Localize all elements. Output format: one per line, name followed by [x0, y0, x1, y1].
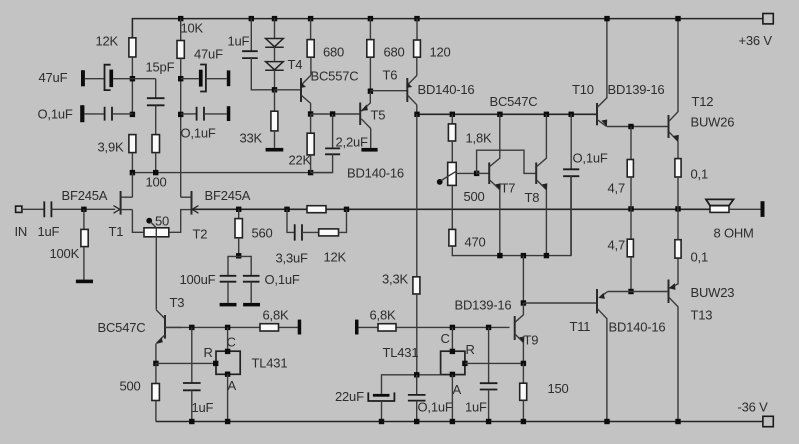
svg-text:470: 470: [465, 235, 486, 250]
wire trimmer wiper out: [456, 172, 476, 174]
svg-text:100uF: 100uF: [180, 272, 216, 287]
junction T11 emitter row: [628, 289, 633, 294]
wire 1uF2 vertical: [488, 327, 490, 383]
svg-text:BD139-16: BD139-16: [455, 298, 512, 313]
wire mid rail y172: [132, 172, 332, 174]
resistor 12K feedback: [319, 229, 339, 236]
capacitor 47uF C3: [199, 65, 206, 92]
junction T3 emitter node: [153, 361, 158, 366]
transistor T2 BF245A: [181, 191, 199, 215]
capacitor 22uF: [368, 392, 394, 401]
resistor 3,3K: [413, 277, 420, 294]
junction rail 0,1: [675, 206, 680, 211]
junction rail 0,1uF4: [414, 419, 419, 424]
wire caps top left: [228, 256, 251, 275]
wire to C3: [181, 78, 199, 80]
wire 100 to mid rail: [155, 153, 157, 173]
wire C2 to x132: [112, 113, 132, 115]
svg-text:4,7: 4,7: [608, 181, 625, 196]
svg-text:O,1uF: O,1uF: [573, 151, 608, 166]
svg-text:3,3uF: 3,3uF: [276, 251, 309, 266]
junction 47uF row x132: [130, 76, 135, 81]
wire 3,3uF to 12K: [302, 231, 319, 233]
wire 680-2 down: [369, 57, 371, 91]
junction rail 12K right: [344, 207, 349, 212]
svg-text:8 OHM: 8 OHM: [714, 226, 754, 241]
wire rail to 680-1: [310, 19, 312, 40]
resistor 680 second: [367, 40, 374, 58]
transistor T7 BC547C: [489, 114, 501, 190]
junction rail 680-1: [308, 16, 313, 21]
wire TL431-2 A down: [451, 375, 453, 422]
terminal +36V: [763, 14, 773, 24]
junction caps node: [236, 253, 241, 258]
wire 3,3uF branch left: [287, 209, 295, 232]
wire 0,1uF to ground: [250, 282, 252, 303]
junction wiper T7 base: [474, 171, 479, 176]
svg-text:1uF: 1uF: [465, 400, 487, 415]
wire 0,1uF3 bottom: [570, 176, 572, 255]
resistor 6,8K right: [378, 324, 396, 331]
svg-text:T9: T9: [524, 333, 539, 348]
wire 22K top: [310, 114, 312, 133]
svg-text:6,8K: 6,8K: [370, 308, 396, 323]
svg-text:T5: T5: [371, 108, 386, 123]
wire T7 base to T8 base bridge: [477, 150, 537, 173]
wire IN to C5: [22, 208, 44, 210]
svg-text:O,1uF: O,1uF: [181, 126, 216, 141]
wire 1,8K to trimmer: [451, 141, 453, 162]
resistor 100K: [81, 229, 88, 246]
junction 1uF2 top: [486, 325, 491, 330]
terminal IN: [16, 206, 22, 212]
svg-text:O,1uF: O,1uF: [418, 400, 453, 415]
junction rail T13: [675, 419, 680, 424]
wire T9 collector up: [522, 256, 524, 303]
junction rail 22uF: [379, 419, 384, 424]
svg-text:R: R: [204, 345, 213, 360]
wire 33K to ground: [274, 131, 276, 148]
pin R U2: [462, 361, 467, 366]
junction rail 1uF-2: [486, 419, 491, 424]
resistor 500 left: [152, 384, 160, 401]
resistor 120: [414, 40, 421, 57]
resistor 33K: [271, 111, 278, 131]
capacitor 1uF top: [242, 51, 258, 58]
svg-text:T3: T3: [170, 295, 185, 310]
junction 4,7-1 top: [628, 124, 633, 129]
wire 100uF to ground: [227, 282, 229, 303]
svg-text:500: 500: [464, 189, 485, 204]
junction mid rail x132: [130, 170, 135, 175]
IC TL431 U2: [441, 351, 465, 374]
transistor T12 BUW26: [669, 19, 679, 142]
svg-text:BD140-16: BD140-16: [418, 82, 475, 97]
wire 1uF3 to base row: [251, 58, 274, 90]
ground under 0,1uF: [243, 303, 260, 307]
trimmer 50 wiper: [146, 218, 156, 237]
resistor 680 first: [307, 40, 314, 58]
wire node to 100K: [83, 209, 85, 229]
svg-text:6,8K: 6,8K: [263, 308, 289, 323]
wire 22uF to rail: [381, 401, 383, 422]
wire terminal to C2: [84, 113, 104, 115]
terminal 6,8K left row: [298, 320, 302, 335]
wire 2,2uF down: [332, 114, 334, 148]
resistor 12K R1: [129, 38, 136, 57]
svg-text:560: 560: [252, 226, 273, 241]
resistor 4,7 second: [627, 239, 633, 257]
junction 1uF top: [189, 325, 194, 330]
svg-text:22K: 22K: [289, 153, 312, 168]
svg-text:A: A: [228, 378, 237, 393]
capacitor 3,3uF: [295, 224, 302, 240]
junction TL431-2 C node: [450, 325, 455, 330]
svg-text:BC547C: BC547C: [490, 94, 538, 109]
svg-text:680: 680: [384, 45, 405, 60]
junction bias T7coll: [497, 112, 502, 117]
svg-text:BD140-16: BD140-16: [609, 320, 666, 335]
speaker LS1: [706, 199, 734, 212]
capacitor 2,2uF: [325, 148, 340, 154]
capacitor 0,1uF bottom: [408, 395, 426, 401]
junction rail 1uF3: [249, 16, 254, 21]
capacitor 0,1uF bias: [563, 169, 579, 176]
wire 100K to ground: [83, 247, 85, 280]
junction row255 T8: [544, 253, 549, 258]
svg-text:47uF: 47uF: [194, 47, 223, 62]
trimmer 500 wiper right: [437, 171, 457, 185]
junction rail TL431-1A: [225, 419, 230, 424]
wire A node to 22uF: [382, 375, 441, 394]
svg-text:1uF: 1uF: [38, 224, 60, 239]
svg-text:1,8K: 1,8K: [466, 131, 492, 146]
junction TL431 C node: [225, 325, 230, 330]
svg-text:-36 V: -36 V: [738, 400, 769, 415]
junction bias T8coll: [544, 112, 549, 117]
svg-text:0,1: 0,1: [691, 250, 708, 265]
svg-text:TL431: TL431: [252, 356, 288, 371]
resistor 100: [152, 135, 160, 153]
svg-text:10K: 10K: [181, 21, 204, 36]
wire T1 source to trimmer: [132, 210, 144, 233]
svg-text:500: 500: [120, 379, 141, 394]
svg-text:T1: T1: [109, 224, 124, 239]
svg-text:15pF: 15pF: [146, 60, 175, 75]
wire C4 to terminal: [204, 113, 227, 115]
transistor T9 BD139-16: [515, 303, 525, 343]
svg-text:3,3K: 3,3K: [382, 272, 408, 287]
svg-text:4,7: 4,7: [608, 238, 625, 253]
transistor T4 BC557C: [300, 75, 311, 103]
wire 0,1uF3 top: [570, 114, 572, 169]
junction A-node x417: [414, 372, 419, 377]
terminal 6,8K right row: [355, 320, 359, 335]
wire D2 to base row: [274, 70, 276, 90]
wire D1 to D2: [274, 47, 276, 61]
junction row255 T9: [521, 253, 526, 258]
pin R U1: [213, 361, 218, 366]
wire 4,7-1 bottom: [630, 177, 632, 209]
junction diode base row: [272, 87, 277, 92]
svg-text:1uF: 1uF: [228, 34, 250, 49]
svg-text:0,1: 0,1: [691, 167, 708, 182]
transistor T13 BUW23: [669, 240, 679, 422]
resistor 0,1 second: [675, 240, 681, 258]
wire 560 bottom: [238, 238, 240, 256]
wire rail to D1: [274, 19, 276, 39]
junction rail 3,3uF: [284, 207, 289, 212]
svg-text:O,1uF: O,1uF: [265, 272, 300, 287]
transistor T10 BD139-16: [597, 19, 607, 127]
svg-text:BUW26: BUW26: [691, 115, 735, 130]
terminal 47uF2 right: [227, 70, 231, 86]
svg-text:IN: IN: [15, 224, 28, 239]
wire rail to 10K: [180, 19, 182, 41]
diode D2: [265, 62, 284, 71]
transistor T3 BC547C: [156, 310, 182, 344]
svg-text:47uF: 47uF: [39, 70, 68, 85]
svg-text:100K: 100K: [50, 246, 80, 261]
wire 120 to T6 emitter: [416, 57, 418, 75]
wire TL431-2 C up: [451, 327, 453, 351]
wire 10K down to T2 drain: [180, 58, 182, 197]
capacitor 0,1uF parallel: [243, 276, 260, 282]
wire trimmer wiper down to T3: [155, 237, 157, 310]
capacitor 100uF: [220, 276, 237, 282]
junction rail T12 coll: [675, 16, 680, 21]
resistor 10K: [177, 41, 184, 59]
junction T5 emitter node: [368, 89, 373, 94]
svg-text:TL431: TL431: [383, 345, 419, 360]
svg-text:T8: T8: [525, 190, 540, 205]
svg-text:T4: T4: [288, 57, 303, 72]
wire node to 500: [155, 363, 157, 383]
wire node to 150: [522, 363, 524, 383]
wire 3,9K to mid rail: [131, 153, 133, 173]
wire C3 to terminal: [206, 78, 227, 80]
pin A U1: [225, 372, 230, 377]
capacitor 0,1uF C4: [197, 107, 204, 121]
ground under 100K: [76, 280, 93, 284]
wire TL431-1 A down: [227, 374, 229, 421]
wire 1uF to rail: [191, 390, 193, 421]
svg-text:T13: T13: [691, 308, 713, 323]
wire 680-1 to T4 emitter: [310, 57, 312, 75]
svg-text:C: C: [227, 335, 236, 350]
terminal 47uF left: [81, 70, 85, 86]
svg-text:T6: T6: [383, 68, 398, 83]
wire x417 down: [416, 114, 418, 276]
junction rail 120: [414, 16, 419, 21]
wire trimmer to T2 source: [169, 210, 192, 233]
junction row255 T7: [497, 253, 502, 258]
svg-text:R: R: [466, 342, 475, 357]
junction T9 emitter node: [521, 361, 526, 366]
pin C U1: [225, 349, 230, 354]
wire C1 to x132: [113, 78, 132, 80]
svg-text:BD140-16: BD140-16: [347, 166, 404, 181]
wire emitter node to TL431: [156, 362, 216, 364]
terminal speaker: [761, 201, 765, 217]
junction rail T11: [604, 419, 609, 424]
wire T12 emitter down: [677, 141, 679, 158]
resistor 470: [449, 229, 456, 246]
svg-text:BF245A: BF245A: [205, 188, 251, 203]
wire rail to 120: [416, 19, 418, 40]
svg-text:12K: 12K: [324, 250, 347, 265]
junction rail T10 coll: [604, 16, 609, 21]
resistor 560: [235, 219, 242, 238]
junction 0,1uF row x132: [130, 112, 135, 117]
wire T5 base row: [311, 113, 361, 115]
svg-text:3,9K: 3,9K: [98, 140, 124, 155]
capacitor 15pF: [147, 98, 165, 105]
svg-text:A: A: [453, 382, 462, 397]
wire 1uF vertical: [191, 327, 193, 383]
resistor 6,8K left: [260, 324, 279, 331]
wire 47uF node to 15pF: [132, 78, 155, 80]
wire T6 collector down: [416, 105, 418, 115]
wire 4,7-2 bottom: [630, 257, 632, 292]
junction rail 150: [521, 419, 526, 424]
svg-text:T2: T2: [193, 227, 208, 242]
transistor T11 BD140-16: [597, 289, 608, 422]
svg-text:BF245A: BF245A: [62, 188, 108, 203]
capacitor 1uF left: [183, 383, 201, 390]
svg-text:+36 V: +36 V: [739, 33, 773, 48]
resistor 3,9K: [129, 135, 136, 153]
wire T5 collector down: [370, 129, 372, 148]
wire 2,2uF to mid rail: [311, 154, 333, 172]
resistor 4,7 first: [627, 160, 633, 178]
pin C U2: [450, 349, 455, 354]
wire 4,7-2 top: [630, 209, 632, 239]
terminal 0,1uF left: [80, 105, 84, 122]
wire 0,1uF4 to rail: [416, 401, 418, 422]
junction bias 1,8K: [450, 112, 455, 117]
wire 3,3K down crossing: [416, 294, 418, 375]
diode D1: [265, 39, 284, 48]
trimmer 50 body: [144, 228, 169, 237]
wire C5 to gate: [51, 208, 115, 210]
wire +36V top rail: [132, 19, 762, 38]
resistor 150: [520, 383, 527, 400]
wire rail to 680-2: [369, 19, 371, 40]
resistor 0,1 first: [675, 159, 681, 177]
wire rail to 1uF3: [250, 19, 252, 52]
svg-text:12K: 12K: [96, 34, 119, 49]
svg-text:C: C: [441, 331, 450, 346]
wire T4 collector down: [310, 103, 312, 114]
junction T9 collector node: [521, 300, 526, 305]
junction rail 1uF-1: [189, 419, 194, 424]
wire T7 emitter down: [499, 190, 501, 256]
wire 4,7-1 top: [630, 127, 632, 160]
resistor 560 series on rail: [307, 206, 326, 213]
svg-text:120: 120: [430, 45, 451, 60]
pin A U2: [450, 372, 455, 377]
junction 47uF2 row x180: [178, 76, 183, 81]
capacitor 47uF C1: [105, 65, 114, 90]
capacitor 0,1uF C2: [105, 107, 112, 121]
resistor 1,8K: [448, 124, 455, 141]
wire right base row: [359, 326, 510, 328]
wire signal rail: [192, 208, 710, 210]
svg-text:T7: T7: [501, 181, 516, 196]
transistor T6 BD140-16: [406, 76, 416, 105]
junction bias 0,1uF: [569, 112, 574, 117]
svg-text:BUW23: BUW23: [691, 285, 735, 300]
svg-text:BD139-16: BD139-16: [608, 82, 665, 97]
junction mid rail x155: [153, 170, 158, 175]
transistor T5 BD140-16: [360, 92, 371, 129]
junction rail diodes: [272, 16, 277, 21]
IC TL431 U1: [216, 351, 240, 374]
wire 500 to bottom rail: [155, 401, 157, 422]
terminal 0,1uF2 right: [227, 106, 231, 121]
svg-text:50: 50: [155, 214, 169, 229]
wire 1uF2 to rail: [488, 390, 490, 422]
svg-text:2,2uF: 2,2uF: [336, 135, 369, 150]
wire T9 node to T11: [523, 302, 597, 304]
ground under T5: [361, 148, 377, 152]
svg-text:1uF: 1uF: [192, 400, 214, 415]
junction top rail 10K: [178, 16, 183, 21]
resistor 22K: [307, 133, 314, 155]
wire 1,8K top: [451, 114, 453, 124]
svg-text:T11: T11: [570, 319, 591, 334]
svg-text:T10: T10: [572, 82, 594, 97]
wire down to 15pF: [155, 79, 157, 99]
wire diodes node to 33K: [274, 90, 276, 111]
wire T11 emitter row: [608, 291, 669, 293]
svg-text:680: 680: [323, 45, 344, 60]
wire current row: [452, 176, 571, 255]
wire base row to T4: [275, 89, 302, 91]
wire 560 top: [238, 209, 240, 218]
wire 0,1-2 top: [677, 209, 679, 240]
wire 12K to node A: [131, 57, 133, 112]
wire A-node to 0,1uF bottom cap: [416, 375, 418, 395]
terminal -36V: [763, 416, 773, 426]
transistor T1 BF245A: [114, 191, 133, 215]
wire T8 emitter down: [545, 190, 547, 256]
junction rail 680-2: [368, 16, 373, 21]
svg-text:BC557C: BC557C: [311, 69, 359, 84]
wire 12K to rail: [339, 209, 347, 232]
junction T5 base row left: [308, 111, 313, 116]
wire T9 emitter down: [522, 342, 524, 363]
ground under 33K: [266, 148, 284, 152]
ground under 100uF: [220, 303, 237, 307]
wire terminal to C1: [85, 78, 105, 80]
wire T3 base row: [166, 326, 298, 328]
svg-text:100: 100: [146, 175, 167, 190]
svg-text:BC547C: BC547C: [98, 320, 146, 335]
svg-text:O,1uF: O,1uF: [38, 107, 73, 122]
svg-text:T12: T12: [692, 94, 714, 109]
wire 15pF to 100: [155, 105, 157, 134]
wire speaker to terminal: [729, 208, 761, 210]
wire -36V bottom rail: [156, 421, 763, 423]
junction mid rail x310: [308, 170, 313, 175]
wire T3 emitter down: [155, 344, 157, 364]
junction 0,1uF2 row x180: [178, 112, 183, 117]
wire 150 to rail: [522, 400, 524, 421]
wire T6 base: [370, 90, 407, 92]
wire bias row right: [417, 113, 597, 115]
